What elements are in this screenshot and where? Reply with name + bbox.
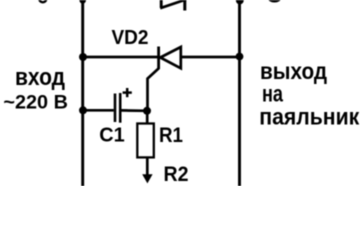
- node: junction dot right rail / VD2 wire: [236, 53, 244, 61]
- node: junction dot C1 / R1 / gate: [143, 107, 151, 115]
- cut-off text remnant (blob) top-right: [268, 0, 281, 3]
- wire: VD2 anode to right rail: [181, 56, 240, 59]
- resistor R1: body rectangle: [137, 124, 154, 158]
- svg-text:R2: R2: [164, 163, 189, 186]
- svg-text:вход: вход: [15, 64, 65, 91]
- cut-off text remnant (ring) top-left: [39, 0, 46, 2]
- potentiometer R2: wiper arrow head: [142, 174, 152, 183]
- thyristor VD2: cathode bar: [157, 47, 160, 70]
- wire: node down to R1 top lead: [146, 111, 149, 124]
- wire: left rail to C1: [83, 109, 114, 112]
- diode VD1 (cut off at top): anode triangle base: [160, 0, 163, 8]
- wire: VD2 gate lead down to C1/R1 node: [148, 68, 159, 110]
- svg-text:VD2: VD2: [112, 27, 149, 49]
- node: junction dot left rail / VD2 wire: [79, 53, 87, 61]
- svg-text:~220 В: ~220 В: [3, 93, 68, 114]
- diode VD1: triangle lower edge: [160, 0, 186, 8]
- svg-text:паяльник: паяльник: [259, 104, 359, 130]
- capacitor C1: polarity plus sign: [123, 88, 132, 97]
- wire: left rail to VD2 cathode: [84, 56, 158, 59]
- wire: left input rail (vertical): [81, 0, 84, 186]
- capacitor C1: left plate: [114, 94, 117, 123]
- node: junction dot top of left rail: [79, 0, 86, 4]
- diode VD1: cathode bar: [183, 0, 186, 11]
- node: junction dot top of right rail: [236, 0, 244, 4]
- wire: R1 bottom lead: [146, 157, 149, 178]
- svg-text:на: на: [262, 80, 284, 106]
- svg-text:C1: C1: [99, 124, 125, 147]
- thyristor VD2: triangle: [160, 47, 181, 68]
- node: junction dot left rail / C1 wire: [79, 106, 87, 114]
- wire: right output rail (vertical): [238, 0, 241, 186]
- svg-text:R1: R1: [159, 124, 183, 147]
- capacitor C1: right plate: [119, 93, 122, 123]
- wire: C1 to junction node: [122, 109, 148, 112]
